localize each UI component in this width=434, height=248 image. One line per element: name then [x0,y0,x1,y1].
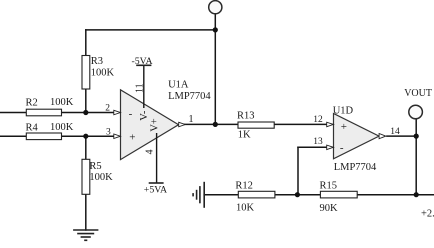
svg-text:13: 13 [313,137,323,147]
VOUT connector [404,88,432,119]
svg-text:1K: 1K [238,130,251,141]
svg-text:-: - [129,108,133,120]
resistor R3 [82,56,115,90]
power -5VA [132,56,153,67]
wire pin 13 horizontal [298,146,327,148]
wire pin 13 branch down to bottom net [297,147,299,194]
wire R3 top to feedback rail [85,30,87,56]
junction dot U1A output [213,122,218,127]
svg-text:100K: 100K [89,172,113,183]
wire R12 to R15 [275,194,320,196]
wire feedback top rail [86,29,216,31]
wire R15 to right edge [357,194,434,196]
svg-text:-: - [340,142,344,154]
svg-text:R15: R15 [320,181,338,192]
wire R2 right to pin 2 arrow [62,112,115,114]
resistor R5 [82,159,113,194]
pin 13 arrow [313,137,333,149]
svg-text:90K: 90K [320,203,339,214]
svg-text:11: 11 [134,83,145,93]
svg-text:+5VA: +5VA [144,184,167,195]
svg-text:+2.: +2. [421,209,434,220]
svg-text:LMP7704: LMP7704 [334,162,377,173]
svg-text:2: 2 [105,103,110,113]
resistor R15 [320,181,358,214]
svg-text:V-: V- [139,110,150,121]
wire node A up to R3 [85,89,87,113]
svg-text:R2: R2 [26,98,38,109]
svg-text:R5: R5 [89,161,101,172]
svg-text:+: + [129,131,135,143]
wire U1D output to VOUT node [387,135,416,137]
svg-text:VOUT: VOUT [404,88,432,99]
svg-text:V+: V+ [150,118,161,132]
wire R5 bottom to ground [85,194,87,230]
svg-text:+: + [341,121,347,133]
pin 2 arrow [105,103,120,114]
svg-text:100K: 100K [50,122,74,133]
op-amp U1A [121,79,212,159]
ground left of R12 [193,182,204,208]
svg-text:U1A: U1A [168,79,189,90]
svg-text:3: 3 [106,128,111,138]
resistor R2 [26,97,74,116]
svg-text:100K: 100K [91,68,115,79]
svg-text:4: 4 [144,150,155,155]
node: top connector circle [209,1,222,14]
svg-text:10K: 10K [236,202,255,213]
wire net A from left edge to R2 [0,112,26,114]
svg-text:R3: R3 [91,56,103,67]
resistor R4 [26,122,74,140]
svg-text:R13: R13 [237,111,255,122]
wire vertical from top connector to output node [214,14,216,125]
pin 4 line [156,133,158,183]
wire U1A output to R13 [185,123,239,125]
op-amp U1D [333,105,379,173]
wire VOUT connector stem [415,119,417,137]
wire net B from left edge to R4 [0,135,26,137]
svg-text:14: 14 [390,127,400,137]
pin 3 arrow [106,128,120,139]
ground below R5 [73,230,98,240]
pin 11 line [143,65,145,108]
svg-text:100K: 100K [50,97,74,108]
svg-text:1: 1 [188,114,193,125]
wire R4 right to pin 3 arrow [62,135,115,137]
power +5VA [144,183,167,195]
pin 14 output arrow [379,127,400,139]
svg-text:-5VA: -5VA [132,56,153,67]
svg-text:R12: R12 [235,181,253,192]
resistor R12 [235,181,275,214]
wire ground to R12 [204,194,238,196]
junction dot bottom net left [295,192,300,197]
pin 1 output arrow [179,114,194,127]
svg-text:LMP7704: LMP7704 [168,91,211,102]
pin 4 label [144,150,155,155]
junction dot top rail [213,27,218,32]
junction dot VOUT node [414,134,419,139]
junction dot node B [83,134,88,139]
svg-text:R4: R4 [26,123,39,134]
resistor R13 [237,111,274,141]
svg-text:12: 12 [313,115,323,125]
pin 12 arrow [313,115,333,127]
pin 11 label [134,83,145,93]
junction dot bottom net right [414,192,419,197]
junction dot node A [83,110,88,115]
wire node B down to R5 [85,136,87,159]
svg-text:U1D: U1D [333,105,354,116]
wire VOUT node down to bottom net [415,136,417,195]
wire R13 to pin 12 arrow [274,123,327,125]
